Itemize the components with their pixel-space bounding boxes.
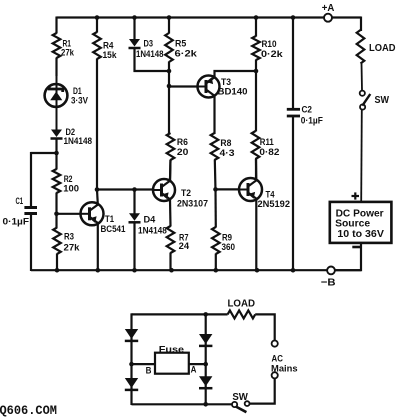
svg-text:Mains: Mains	[271, 363, 298, 373]
wire R8 to R9 junction	[214, 160, 217, 191]
wire T3 top to R10/R11 node	[215, 71, 257, 78]
wire to T4 base	[216, 188, 240, 190]
svg-text:10 to 36V: 10 to 36V	[337, 229, 384, 240]
svg-text:R8: R8	[220, 138, 231, 148]
svg-text:R10: R10	[262, 39, 277, 49]
svg-text:+A: +A	[322, 3, 335, 14]
node: rail/D4	[132, 268, 137, 273]
diode: bridge top-left	[125, 329, 138, 339]
svg-text:6·2k: 6·2k	[175, 48, 198, 58]
svg-text:D3: D3	[144, 38, 154, 48]
wire to T1 base	[57, 213, 82, 215]
capacitor C1 0.1uF	[24, 206, 37, 209]
resistor R10 0.2k	[255, 17, 257, 37]
wire SW to AC mains bottom	[250, 378, 275, 403]
terminal -B	[327, 267, 335, 275]
wire T4 emitter down	[255, 199, 257, 271]
diode: bridge bottom-left	[125, 378, 138, 388]
svg-text:3·3V: 3·3V	[71, 96, 89, 106]
svg-text:0·1µF: 0·1µF	[301, 116, 323, 126]
terminal AC mains bottom	[272, 372, 278, 378]
wire R11 to T4 collector	[255, 159, 257, 181]
wire DC source bottom to rail	[335, 243, 361, 270]
node A	[203, 362, 208, 367]
wire LOAD to SW	[361, 63, 364, 91]
resistor LOAD (DC branch)	[357, 30, 365, 64]
wire fuse to A node	[189, 363, 206, 365]
svg-text:SW: SW	[232, 392, 248, 403]
transistor T1 BC541	[81, 202, 104, 225]
svg-text:2N5192: 2N5192	[258, 199, 291, 209]
node: rail/C2	[291, 15, 296, 20]
node: rail/R5	[167, 15, 172, 20]
node: rail/C2	[291, 268, 296, 273]
node: rail/T4 emitter	[255, 268, 260, 273]
wire T3 bottom to R8	[213, 96, 215, 135]
wire T4 collector up	[255, 159, 257, 180]
svg-text:C1: C1	[16, 196, 24, 206]
transistor T4 2N5192	[239, 178, 262, 201]
svg-text:R6: R6	[177, 137, 188, 147]
wire: bridge left branch	[130, 313, 132, 405]
top supply rail	[57, 16, 362, 18]
svg-text:27k: 27k	[64, 243, 81, 253]
svg-text:2N3107: 2N3107	[177, 199, 208, 209]
node: rail/R3	[55, 268, 60, 273]
wire SW to DC source box	[360, 110, 363, 202]
node: R10/R11/T3	[254, 69, 259, 74]
diode D4 1N4148	[133, 190, 135, 214]
svg-text:Q606.COM: Q606.COM	[0, 404, 57, 418]
wire D3 bottom to R5 bottom	[134, 70, 170, 72]
svg-text:1N4148: 1N4148	[138, 225, 167, 235]
wire R4 down to mid rail	[96, 59, 98, 191]
diode: bridge top-right	[199, 334, 212, 344]
svg-text:Fuse: Fuse	[159, 344, 184, 354]
wire LOAD to AC mains top	[255, 314, 275, 340]
node: bridge top right	[203, 312, 208, 317]
svg-text:T3: T3	[221, 77, 231, 87]
svg-text:BC541: BC541	[101, 224, 126, 234]
diode D3 1N4148	[133, 17, 135, 40]
wire T1 collector up	[96, 190, 99, 204]
svg-text:1N4148: 1N4148	[64, 136, 93, 146]
fuse box	[155, 353, 189, 374]
resistor R1 27k	[55, 17, 57, 34]
wire R6 to T2 collector	[169, 160, 172, 181]
diode: bridge bottom-right	[199, 376, 212, 386]
svg-text:27k: 27k	[61, 48, 75, 58]
wire junction to C1	[31, 152, 57, 154]
wire C1 bottom lead	[30, 214, 32, 272]
zener diode D1 3.3V	[45, 84, 68, 107]
svg-text:AC: AC	[272, 354, 284, 364]
node: rail/T1 emitter	[96, 268, 101, 273]
svg-text:LOAD: LOAD	[228, 299, 256, 310]
svg-text:1N4148: 1N4148	[136, 49, 164, 59]
node: mid/R4/T1	[95, 187, 100, 192]
svg-text:4·3: 4·3	[220, 148, 235, 158]
resistor R6 20	[168, 86, 170, 134]
resistor R2 100	[55, 153, 57, 170]
switch SW (AC circuit)	[232, 402, 237, 407]
label: + terminal of DC source	[352, 195, 360, 197]
svg-text:−B: −B	[321, 277, 336, 289]
wire C1 top lead	[30, 152, 32, 207]
svg-text:R4: R4	[103, 41, 114, 51]
diode D2 1N4148	[51, 130, 62, 138]
svg-text:0·1µF: 0·1µF	[3, 216, 30, 226]
svg-text:24: 24	[179, 241, 190, 251]
svg-text:Source: Source	[335, 218, 370, 229]
node: R8/R9/T4-base	[213, 187, 218, 192]
svg-text:R5: R5	[175, 38, 186, 48]
svg-text:360: 360	[222, 242, 236, 252]
svg-text:R3: R3	[64, 232, 74, 242]
wire: right branch from rail down to LOAD	[360, 17, 362, 32]
svg-text:15k: 15k	[103, 50, 118, 60]
svg-text:D4: D4	[144, 214, 157, 224]
resistor R9 360	[214, 189, 217, 227]
resistor R11 0.82	[252, 131, 260, 159]
terminal +A	[324, 14, 332, 22]
wire T2 collector up	[169, 160, 172, 181]
node: rail/D3	[132, 15, 137, 20]
capacitor C2 0.1uF	[292, 17, 294, 110]
node: rail/R9	[214, 268, 219, 273]
svg-text:0·82: 0·82	[259, 147, 279, 157]
svg-text:D1: D1	[73, 86, 82, 96]
terminal AC mains top	[272, 341, 278, 347]
svg-text:R11: R11	[260, 137, 274, 147]
node: R2/R3/T1-base	[55, 193, 57, 229]
wire: bridge top	[132, 313, 228, 315]
wire: bridge bottom	[132, 403, 233, 405]
bottom rail	[31, 269, 361, 271]
resistor R4 15k	[96, 17, 98, 33]
resistor R5 6.2k	[168, 17, 170, 34]
node B	[129, 362, 134, 367]
node: rail/R4	[95, 15, 100, 20]
wire R1-D1	[55, 58, 57, 77]
wire: mid rail (T1 collector to T2 base)	[97, 188, 153, 190]
node: R5/R6/T3-base	[167, 84, 172, 89]
wire T2 emitter down	[169, 199, 172, 226]
svg-text:B: B	[146, 366, 152, 376]
wire to T3 base	[169, 85, 198, 87]
svg-text:LOAD: LOAD	[369, 43, 396, 54]
transistor T2 2N3107	[153, 179, 175, 201]
svg-text:0·2k: 0·2k	[261, 49, 284, 59]
node: bridge bottom right	[203, 402, 208, 407]
switch SW (DC branch)	[360, 91, 365, 96]
resistor R3 27k	[53, 228, 61, 255]
resistor R7 24	[167, 226, 175, 253]
wire B to fuse	[132, 363, 156, 365]
wire T1 emitter down	[97, 223, 99, 271]
node: rail/R7	[169, 268, 174, 273]
svg-text:A: A	[191, 365, 197, 375]
node: mid/D4	[132, 187, 137, 192]
DC power source box	[330, 202, 392, 243]
svg-text:T4: T4	[266, 190, 276, 200]
svg-text:T1: T1	[105, 214, 114, 224]
svg-text:100: 100	[63, 183, 79, 193]
node: D3/R5	[167, 69, 172, 74]
node: rail/R10	[254, 15, 259, 20]
svg-text:SW: SW	[375, 95, 390, 106]
svg-text:BD140: BD140	[218, 87, 248, 97]
svg-text:20: 20	[177, 147, 189, 157]
transistor T3 BD140	[198, 76, 220, 98]
resistor LOAD (AC circuit)	[228, 310, 256, 318]
svg-text:C2: C2	[302, 105, 313, 115]
node: D2/R2/C1	[54, 151, 59, 156]
svg-text:T2: T2	[181, 188, 191, 198]
label: - terminal of DC source	[352, 246, 361, 249]
resistor R8 4.3	[211, 133, 219, 160]
wire: bridge right branch	[205, 313, 207, 405]
